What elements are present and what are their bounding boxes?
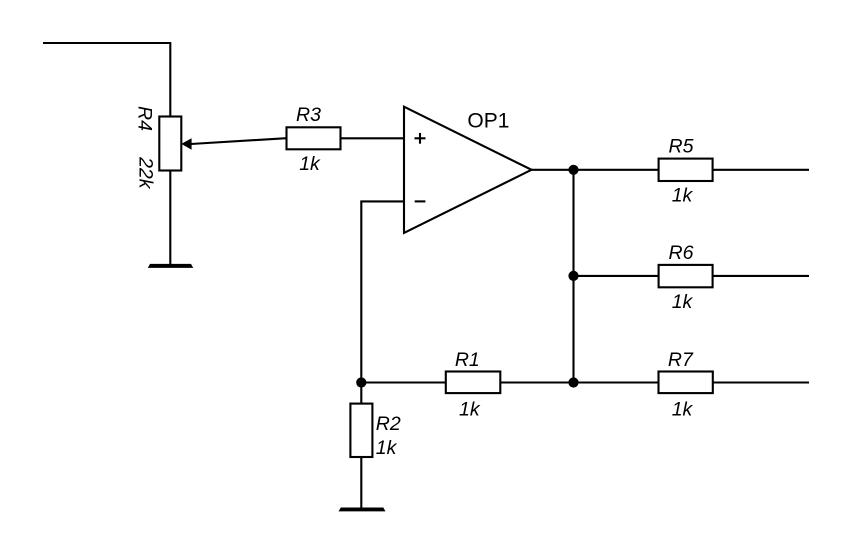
R4 label [134, 106, 156, 131]
svg-text:R1: R1 [455, 349, 480, 371]
wire R6 to right edge [713, 275, 809, 277]
wire R5 to right edge [713, 169, 809, 171]
R6 value 1k [672, 291, 694, 313]
op-amp U1 triangle [404, 107, 532, 233]
svg-text:1k: 1k [459, 398, 481, 420]
wire top-left net into R4 top [43, 43, 170, 117]
R5 label [669, 136, 694, 158]
wire op-amp minus input feedback [361, 201, 404, 382]
op-amp label OP1 [467, 110, 509, 133]
svg-text:1k: 1k [672, 291, 694, 313]
wire op-amp output [532, 169, 659, 171]
svg-text:R2: R2 [376, 413, 401, 435]
svg-text:1k: 1k [376, 437, 398, 459]
R5 value 1k [672, 185, 694, 207]
R4 value 22k [134, 156, 156, 190]
resistor R5 body [659, 159, 713, 181]
R1 label [455, 349, 480, 371]
svg-text:R4: R4 [134, 106, 156, 131]
resistor R3 body [287, 127, 341, 149]
svg-text:1k: 1k [672, 398, 694, 420]
op-amp minus input marker [415, 200, 426, 202]
svg-text:22k: 22k [134, 156, 156, 190]
svg-text:OP1: OP1 [467, 110, 509, 133]
node bottom-left junction [356, 377, 366, 387]
ground under R2 [339, 508, 386, 512]
R7 value 1k [672, 398, 694, 420]
node R6 junction [568, 271, 578, 281]
node bus bottom junction [568, 377, 578, 387]
R1 value 1k [459, 398, 481, 420]
wire R1 to R7 [500, 381, 658, 383]
resistor R7 body [659, 372, 713, 394]
R2 label [376, 413, 401, 435]
R4 wiper arrowhead [181, 138, 191, 149]
svg-text:R5: R5 [669, 136, 694, 158]
svg-text:1k: 1k [299, 153, 321, 175]
wire R3 to op-amp + input [341, 137, 405, 139]
svg-text:R7: R7 [668, 349, 694, 371]
resistor R1 body [446, 372, 501, 394]
R2 value 1k [376, 437, 398, 459]
svg-text:R6: R6 [669, 242, 694, 264]
svg-text:1k: 1k [672, 185, 694, 207]
R3 label [296, 104, 321, 126]
wire bus to R6 [574, 275, 659, 277]
wire R7 to right edge [713, 381, 809, 383]
R7 label [668, 349, 694, 371]
resistor R6 body [659, 265, 713, 287]
wire output bus vertical [572, 170, 574, 383]
op-amp plus input marker [415, 133, 426, 144]
wire R4 bottom to ground [169, 171, 171, 265]
resistor R2 body [350, 404, 372, 457]
R3 value 1k [299, 153, 321, 175]
node output junction [568, 165, 578, 175]
potentiometer R4 body [159, 117, 181, 171]
wire R2 bottom to ground [360, 457, 362, 508]
svg-text:R3: R3 [296, 104, 321, 126]
ground under R4 [148, 264, 193, 268]
R6 label [669, 242, 694, 264]
wire wiper to R3 [191, 138, 287, 144]
wire node to R1 [361, 381, 446, 383]
wire node down to R2 [360, 383, 362, 404]
